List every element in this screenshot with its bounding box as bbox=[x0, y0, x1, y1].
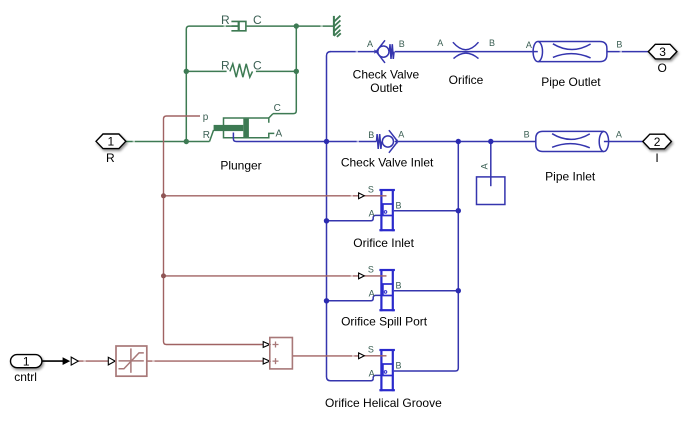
svg-text:A: A bbox=[398, 130, 404, 140]
node green spring-left junction bbox=[184, 69, 189, 74]
svg-text:B: B bbox=[396, 280, 402, 290]
svg-text:2: 2 bbox=[654, 135, 661, 149]
check valve inlet seat bbox=[394, 139, 397, 143]
wire spring row right bbox=[256, 70, 296, 72]
svg-text:C: C bbox=[253, 59, 262, 73]
svg-text:S: S bbox=[368, 344, 374, 354]
node brown inlet S junction bbox=[161, 193, 166, 198]
wire plunger A down-right bbox=[233, 133, 326, 142]
svg-text:A: A bbox=[369, 289, 375, 299]
check valve outlet seat bbox=[374, 49, 377, 53]
svg-text:Check Valve: Check Valve bbox=[353, 67, 420, 81]
arrow into orifice spill S bbox=[359, 273, 365, 279]
check valve outlet bbox=[376, 40, 394, 63]
wire check valve outlet to pipe outlet bbox=[395, 51, 532, 53]
spring bbox=[230, 64, 253, 77]
svg-text:A: A bbox=[479, 163, 489, 169]
wire orifice spill A bbox=[327, 295, 382, 300]
node blue spill B junction bbox=[456, 288, 461, 293]
arrow converter bbox=[71, 357, 78, 365]
pipe outlet bbox=[532, 42, 607, 62]
plunger body bbox=[224, 114, 275, 138]
svg-text:A: A bbox=[367, 39, 373, 49]
svg-text:A: A bbox=[526, 40, 532, 50]
node brown spill S junction bbox=[161, 273, 166, 278]
port connection ticks (subtle) bbox=[83, 25, 622, 362]
svg-text:A: A bbox=[369, 209, 375, 219]
wire row1 to check valve outlet bbox=[330, 51, 375, 53]
svg-text:A: A bbox=[369, 369, 375, 379]
sum block bbox=[270, 338, 293, 369]
svg-text:O: O bbox=[658, 61, 667, 75]
wire tank drop bbox=[490, 142, 492, 187]
plunger piston bbox=[243, 119, 249, 138]
node blue inlet B junction bbox=[456, 208, 461, 213]
signal arrow triangles (hollow) bbox=[71, 193, 364, 365]
BLUE hydraulic network bbox=[233, 52, 648, 381]
wire S inlet branch bbox=[164, 195, 359, 197]
BROWN physical signal network bbox=[78, 116, 386, 361]
svg-text:Orifice Helical Groove: Orifice Helical Groove bbox=[325, 396, 442, 410]
wire cntrl black bbox=[42, 360, 63, 362]
svg-text:B: B bbox=[396, 200, 402, 210]
svg-text:Check Valve Inlet: Check Valve Inlet bbox=[341, 156, 434, 170]
wire orifice inlet A bbox=[327, 215, 382, 220]
wire left vertical bbox=[186, 26, 238, 141]
node blue tank junction bbox=[488, 139, 493, 144]
saturation block bbox=[116, 346, 147, 376]
svg-text:B: B bbox=[396, 360, 402, 370]
orifice helical groove block bbox=[379, 349, 395, 391]
node blue inlet A junction bbox=[324, 218, 329, 223]
svg-text:1: 1 bbox=[23, 355, 30, 369]
svg-text:p: p bbox=[203, 112, 209, 123]
wire damper to ground bbox=[247, 25, 334, 27]
wire check valve inlet to pipe inlet bbox=[398, 141, 536, 143]
port 2 hexagon bbox=[643, 134, 672, 149]
arrow into sum bottom bbox=[263, 358, 270, 364]
tank bbox=[477, 177, 505, 205]
wire pipe outlet to port 3 bbox=[607, 51, 648, 53]
wire saturation to sum bbox=[147, 360, 263, 362]
wire orifice B bus vertical bbox=[394, 142, 458, 372]
wire blue bus vertical bbox=[327, 52, 374, 381]
svg-text:Plunger: Plunger bbox=[220, 159, 261, 173]
input port oval cntrl bbox=[11, 355, 42, 368]
pipe inlet bbox=[536, 131, 609, 151]
node green spring-right junction bbox=[294, 69, 299, 74]
wire pipe inlet to port 2 bbox=[609, 141, 643, 143]
plunger rod bbox=[214, 125, 244, 131]
svg-text:Pipe Outlet: Pipe Outlet bbox=[541, 75, 601, 89]
svg-text:B: B bbox=[489, 38, 495, 48]
wire jog into plunger rod R port bbox=[210, 130, 214, 142]
svg-text:A: A bbox=[276, 128, 283, 139]
wire row2 to check valve inlet bbox=[327, 141, 377, 143]
svg-text:B: B bbox=[616, 40, 622, 50]
wire right vertical with C connection bbox=[273, 26, 296, 114]
svg-text:1: 1 bbox=[108, 134, 115, 148]
node blue spill A junction bbox=[324, 298, 329, 303]
check valve inlet bbox=[377, 130, 398, 153]
port 3 hexagon bbox=[648, 44, 677, 59]
black arrowhead bbox=[63, 357, 71, 365]
svg-text:I: I bbox=[655, 151, 658, 165]
svg-text:C: C bbox=[274, 103, 281, 114]
node green damper-right junction bbox=[294, 23, 299, 28]
orifice spill port block bbox=[379, 269, 395, 311]
svg-text:R: R bbox=[221, 59, 230, 73]
svg-text:B: B bbox=[399, 39, 405, 49]
svg-text:Orifice: Orifice bbox=[449, 73, 484, 87]
svg-text:3: 3 bbox=[659, 45, 666, 59]
orifice inlet block bbox=[379, 189, 395, 231]
svg-text:B: B bbox=[368, 130, 374, 140]
port 1 hexagon R bbox=[96, 134, 126, 149]
svg-text:A: A bbox=[437, 38, 443, 48]
wire sum to helical S bbox=[292, 355, 358, 357]
wire converter to saturation bbox=[78, 360, 108, 362]
svg-text:Orifice Inlet: Orifice Inlet bbox=[353, 236, 414, 250]
damper R-C bbox=[231, 21, 246, 30]
node blue B-bus row2 junction bbox=[456, 139, 461, 144]
svg-text:A: A bbox=[616, 130, 622, 140]
wire bus bottom step into helical A bbox=[373, 375, 381, 378]
svg-text:Pipe Inlet: Pipe Inlet bbox=[545, 170, 596, 184]
wire orifice spill B bbox=[394, 290, 458, 292]
svg-text:Orifice Spill Port: Orifice Spill Port bbox=[341, 315, 428, 329]
arrow into saturation bbox=[108, 357, 115, 365]
svg-text:Outlet: Outlet bbox=[370, 81, 403, 95]
svg-text:R: R bbox=[203, 130, 210, 141]
mechanical ground bbox=[334, 16, 341, 37]
arrow into orifice helical S bbox=[359, 353, 365, 359]
wire hexagon R to plunger R bbox=[126, 141, 210, 143]
wire plunger p feedback bbox=[164, 116, 264, 345]
svg-text:cntrl: cntrl bbox=[14, 370, 37, 384]
orifice bbox=[453, 42, 479, 58]
GREEN mechanical network bbox=[126, 26, 334, 141]
svg-text:S: S bbox=[368, 264, 374, 274]
wire S spill branch bbox=[164, 275, 359, 277]
wire spring row left bbox=[186, 70, 226, 72]
svg-text:R: R bbox=[106, 151, 115, 165]
arrow into orifice inlet S bbox=[359, 193, 365, 199]
wire orifice inlet B bbox=[394, 210, 458, 212]
svg-text:B: B bbox=[524, 130, 530, 140]
svg-text:S: S bbox=[368, 184, 374, 194]
node green R junction bbox=[184, 139, 189, 144]
arrow into sum top bbox=[263, 342, 270, 348]
node blue row2-bus junction bbox=[324, 139, 329, 144]
svg-text:C: C bbox=[253, 13, 262, 27]
